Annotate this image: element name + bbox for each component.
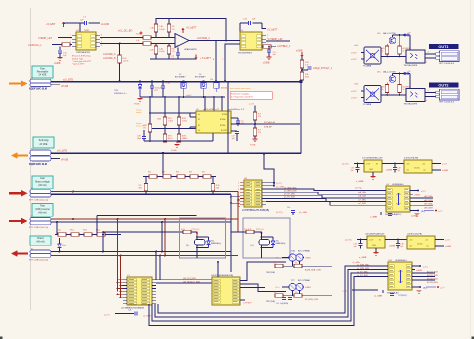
svg-text:(48 mA): (48 mA) [36,241,44,244]
header J1 right pins [262,182,266,184]
chain1 left drop resistor [145,177,147,184]
resistor R15 [177,134,181,142]
wire top U1 supply [64,22,84,24]
U5 right pin1 supply [412,265,420,267]
svg-text:+5.1xBT: +5.1xBT [46,23,56,26]
bus K1 positive wire [51,191,238,193]
svg-text:(SF_BLWCT)_BZB: (SF_BLWCT)_BZB [183,281,201,283]
svg-text:(2+T?): (2+T?) [276,183,282,185]
svg-text:xOUT: xOUT [351,91,357,93]
svg-text:V-7 LM7805MTB-C-N9: V-7 LM7805MTB-C-N9 [362,158,383,160]
svg-text:GND: GND [369,169,374,171]
svg-text:x_GMB: x_GMB [370,217,378,219]
feeder maroon drop K3 to J2 [120,256,122,298]
svg-text:BTBM: BTBM [222,114,227,116]
svg-text:BTBM-: BTBM- [220,125,226,127]
chain2 resistor Rb [71,233,79,237]
svg-text:(2+T5): (2+T5) [345,240,352,242]
svg-text:B: B [213,59,214,61]
node on wire B [119,43,121,45]
svg-text:R-LB: R-LB [136,34,141,36]
svg-text:-Vo: -Vo [426,245,429,247]
svg-text:PxGB: PxGB [250,144,256,146]
chain2 wire [55,234,121,236]
svg-text:xGMB: xGMB [416,270,422,272]
svg-text:(BZ): (BZ) [423,288,428,290]
svg-text:PC1MBB: PC1MBB [363,66,372,68]
chain2 resistor Ra [58,233,66,237]
svg-text:C2s: C2s [210,79,213,81]
svg-text:xLV_BTB: xLV_BTB [57,150,67,153]
svg-text:LM5L: LM5L [405,86,411,88]
regulator V-7 LM7805MTB-C-N9 input wire [354,163,364,165]
svg-text:R-2k: R-2k [181,229,185,231]
svg-text:D5u/: D5u/ [62,245,66,247]
svg-text:V-5 BCG7(LPB): V-5 BCG7(LPB) [404,158,418,160]
svg-text:GND: GND [372,245,377,247]
svg-text:Fast: Fast [40,205,45,208]
controller input rail [140,96,225,98]
chain1 resistor Rd [190,175,198,179]
capacitor C13 [267,49,271,51]
TVS diode D3 [201,83,206,89]
svg-text:C-AL: C-AL [159,48,163,51]
wire supply right [262,23,266,29]
svg-text:47k: 47k [258,132,261,134]
wire down to divider R4 [119,44,121,56]
sheet right edge line [470,0,472,339]
thin loop line upper [97,215,197,217]
feedback mid rail [150,128,196,130]
svg-text:R5u/: R5u/ [70,230,74,232]
svg-text:BT?: BT? [155,90,158,92]
svg-text:1.61B: 1.61B [182,120,188,122]
24VDE bus wire [51,81,301,83]
resistor R9 [263,45,266,47]
connector X1 body [30,79,51,82]
svg-text:R5u/: R5u/ [96,230,100,232]
svg-text:BJT+XTPEAK: BJT+XTPEAK [298,249,311,252]
wire rail to R17k [149,97,151,124]
channel OUT1 SSR box [364,47,381,64]
svg-text:x: x [426,61,427,63]
bottom bus wire 2 [155,270,388,318]
svg-text:BT_BZB_OUB: BT_BZB_OUB [305,299,319,301]
svg-text:4: 4 [238,192,239,194]
svg-text:(O2/b) inverter: (O2/b) inverter [35,208,50,211]
svg-text:LCTBTBBGuTB-SSB(4B): LCTBTBBGuTB-SSB(4B) [242,209,269,212]
chain1 up wire [162,153,164,175]
J2 top feeds [155,252,157,280]
wire U1 top pin [79,23,81,32]
dcdc U-8 BCC(3-LPB) body [407,236,435,249]
chain1 right drop resistor [212,177,214,184]
J2 feed dots maroon2 [120,285,122,287]
channel OUT1 header bar [429,44,458,49]
svg-text:BQDF1WC-SLM: BQDF1WC-SLM [29,88,47,91]
expander U6 right pin wires [240,262,286,281]
wires J2 to expander [156,279,212,281]
bus K2 drop navy [161,222,163,252]
channel OUT2 output wires [425,92,436,94]
svg-text:xACODE_B: xACODE_B [103,57,116,60]
bus1 junctions [118,80,120,82]
regulator U-B LM(XPQ4BT)-N9 input cap [360,240,362,244]
channel OUT1 resistor RB [399,35,401,46]
svg-text:TECSEQ2GPN: TECSEQ2GPN [404,65,418,67]
connector K3 body [30,250,51,253]
resistor R18 [253,128,257,136]
svg-text:R2+: R2+ [295,262,298,264]
cell box 2 [243,218,290,258]
expander U6 body [212,277,240,305]
ground PxGB U2 [176,141,178,143]
header J1 left pins [240,182,244,184]
ptc cell 2 power arrow [261,232,263,238]
sheet margin line [30,8,32,310]
cyan note box K1 [32,176,53,189]
U4 right signal wires [410,197,433,199]
svg-text:BTO6786B?: BTO6786B? [195,77,205,79]
svg-text:BTT L1/BC(1-b-4-k): BTT L1/BC(1-b-4-k) [29,260,48,262]
cyan note box Technology 24VDE [33,137,54,148]
svg-text:xOUT: xOUT [351,59,357,61]
op-amp output wire [189,40,232,42]
svg-text:+ 5.1xBTT: + 5.1xBTT [200,57,212,60]
IC U2 top pins [204,97,206,111]
IC U2 right pin C18 [231,117,238,119]
svg-text:R5u/: R5u/ [83,230,87,232]
svg-text:xTEMP_LET: xTEMP_LET [38,37,53,40]
channel OUT1 transistor [389,37,396,44]
channel OUT2 resistor RA [386,83,388,85]
svg-text:DC/DC: DC/DC [414,168,421,170]
svg-text:xPxGB: xPxGB [61,86,69,88]
capacitor C14 [307,66,311,68]
channel OUT2 resistor RB [399,74,401,85]
wire to C13 [268,46,270,49]
T2B emitter drop [292,291,294,296]
svg-text:0.77 Imposed k.2 speed Re: 0.77 Imposed k.2 speed Re [231,97,253,99]
svg-text:Renewable: Renewable [37,72,49,74]
red arrow K3 [11,250,18,256]
svg-text:24 VDE: 24 VDE [40,144,48,146]
channel OUT1 top wire [393,34,411,36]
svg-text:R2/: R2/ [202,172,205,174]
ptc cell 1 power arrow [196,232,198,238]
svg-text:x+5T: x+5T [445,240,451,242]
IC U1 left pins [72,35,76,37]
resistor R12 [163,117,167,125]
red arrow K2 [9,220,22,222]
transistor pair T2B [289,283,296,290]
chain2 mid drop [102,235,104,252]
J2 bypass cap C20 [115,313,134,315]
svg-text:xxMgF_BTOA(T_1: xxMgF_BTOA(T_1 [313,67,333,70]
snubber C2s [214,83,219,89]
svg-text:p5_BRB_MBu: p5_BRB_MBu [284,188,297,190]
sheet corner mark bottom-right [472,337,474,339]
svg-text:x+5T: x+5T [249,103,255,105]
svg-text:TECHuGPRSG: TECHuGPRSG [238,52,252,54]
svg-text:-: - [176,36,177,40]
channel OUT1 mid wire [381,56,406,58]
wire divider mid [301,68,303,72]
svg-text:R2/: R2/ [148,172,151,174]
svg-text:BTB-BP: BTB-BP [264,126,272,128]
divider tap wire [302,69,308,71]
chain2 zener drop [59,238,61,244]
bus2 junction [162,152,164,154]
svg-text:PxGB: PxGB [171,150,177,152]
op-amp positive supply [182,29,184,34]
channel OUT2 optocoupler [406,89,425,102]
svg-text:xxTEMP_LET: xxTEMP_LET [268,38,283,41]
expander top feed [217,262,219,277]
signal wire staircase 2 [266,192,386,194]
chain2 feed from bus K2 [56,222,58,235]
U4 bottom right row [410,210,418,212]
chain1 wire [143,176,216,178]
svg-text:R5u/: R5u/ [57,230,61,232]
T2B base resistor R23 [294,294,302,298]
svg-text:C-AL: C-AL [159,25,163,28]
cyan note box K3 [30,236,51,245]
capacitor C7 [84,21,86,25]
wire C8 to ground [59,53,61,57]
svg-text:+Vin: +Vin [409,239,413,241]
Technology bus wire [51,152,301,154]
channel OUT1 output wires [425,53,436,55]
U5 below cap [390,293,394,295]
svg-text:BT-1A_BZB: BT-1A_BZB [427,278,438,281]
svg-text:xBZ_MBu: xBZ_MBu [424,196,433,198]
regulator U-B LM(XPQ4BT)-N9 gnd pin [375,248,377,252]
svg-text:PC1MBB: PC1MBB [363,104,372,106]
regulator U-B LM(XPQ4BT)-N9 output cap [397,240,399,244]
svg-text:2: 2 [238,186,239,188]
svg-text:1.41B: 1.41B [168,120,174,122]
svg-text:p5_BRB_BZB: p5_BRB_BZB [284,191,297,193]
svg-text:(5L): (5L) [186,245,190,247]
wire R4 to 24V bus [119,63,121,82]
resistor R14 [163,134,167,142]
svg-text:xxXTMBBGuTB-SSB(4B: xxXTMBBGuTB-SSB(4B [121,308,144,310]
svg-text:0.47µF: 0.47µF [159,29,166,31]
svg-text:1k: 1k [403,89,405,91]
ground stub X1 [51,84,60,86]
power tick [140,32,143,34]
bus K1 drop maroon [237,192,239,233]
svg-text:TMP1NBGPRS: TMP1NBGPRS [76,52,90,54]
regulator V-7 LM7805MTB-C-N9 gnd pin [372,172,374,176]
svg-text:1k: 1k [382,50,384,52]
ptc cell 1 bottom link [196,245,198,248]
ground GMB [57,57,62,59]
svg-text:p5_BT_BZB: p5_BT_BZB [284,197,296,199]
svg-text:0.1µF: 0.1µF [166,83,172,85]
resistor R17 [253,112,257,120]
chain1 resistor Re [203,175,211,179]
svg-text:C-M: C-M [243,19,247,21]
svg-text:BZ-1B_BZB: BZ-1B_BZB [427,275,438,277]
resistor R16 vertical [148,124,152,132]
svg-text:R-X A-2k: R-X A-2k [244,228,252,231]
svg-text:-Vin: -Vin [409,245,412,247]
svg-text:-Vin: -Vin [406,169,409,171]
svg-text:C2?(BZC): C2?(BZC) [398,295,407,297]
ptc cell 2 top link [262,236,274,238]
bus K3 return wire [51,251,231,253]
channel OUT2 transistor [389,76,396,83]
wire U3 top-left pin [239,23,241,32]
bus K3 positive wire [51,255,238,257]
ground U3 [266,56,271,58]
svg-text:(5L): (5L) [251,245,255,247]
svg-text:DC/DC: DC/DC [417,244,424,246]
svg-text:OUT1: OUT1 [438,45,448,49]
svg-text:x2_GMB: x2_GMB [143,315,151,317]
svg-text:xPxGB: xPxGB [61,160,69,162]
svg-text:PTC(+)#: PTC(+)# [256,229,265,231]
IC U2 bottom pin [212,133,214,141]
svg-text:(2+T5): (2+T5) [342,164,349,166]
resistor R13 [177,117,181,125]
svg-text:Macro voltage: Macro voltage [35,181,50,184]
svg-text:+5.1xBTT: +5.1xBTT [267,29,278,32]
bus K2 return wire [51,221,231,223]
cyan note box Fast Renewable 24VDE [32,66,53,78]
svg-text:xxODCAL_L: xxODCAL_L [28,44,43,47]
resistor R11 [300,72,304,80]
svg-text:Technolgy: Technolgy [38,140,49,142]
IC U2 comp pin wire [231,123,300,125]
svg-text:BTT L1/BC(1-b-1-k): BTT L1/BC(1-b-1-k) [29,199,48,201]
channel OUT2 top wire [393,73,411,75]
connector X2 body [30,150,51,156]
wire TEMP_SET out [266,40,290,42]
channel OUT2 mid wire [381,94,406,96]
svg-text:U-B LM(XPQ4BT)-N9: U-B LM(XPQ4BT)-N9 [365,234,385,236]
svg-text:(SF_BT)_BZB: (SF_BT)_BZB [183,278,196,280]
resistor R7 branch [168,19,170,25]
bus K3 junctions [102,251,104,253]
svg-text:1.00 S: 1.00 S [123,61,129,63]
ptc cell 1 drop [196,248,198,259]
svg-text:xGMB: xGMB [54,63,61,65]
svg-text:x_GMB: x_GMB [356,181,364,183]
svg-text:BTOA-EuB: BTOA-EuB [264,121,275,124]
isolator U5 body [388,262,412,290]
bus K1 junctions [72,191,74,193]
svg-text:47k: 47k [258,116,261,118]
resistor R10 [301,57,303,61]
lower rail wire [150,58,196,60]
svg-text:TMP1: TMP1 [84,30,90,32]
lower resistor R8 branch [168,44,170,47]
svg-text:BQDF1WC-SLM: BQDF1WC-SLM [29,163,47,166]
svg-text:(48 mA): (48 mA) [38,184,46,187]
svg-text:xGMB: xGMB [305,258,311,260]
wire U3 top supply [240,22,248,24]
svg-text:xxGMB: xxGMB [386,170,393,172]
svg-text:BZ-1A_BZB: BZ-1A_BZB [427,270,438,273]
ptc cell 1 zener [207,241,211,245]
orange input arrow [9,82,22,84]
J1 stub nodes [266,182,274,184]
svg-text:xACODE_2: xACODE_2 [197,37,211,40]
channel OUT1 diode drop wire [409,35,411,50]
svg-text:xACODE_A: xACODE_A [103,53,116,56]
channel OUT1 connector [440,51,460,62]
feedback loop wire top [156,19,226,41]
svg-text:Brand: Brand [37,237,44,240]
cell2 feed resistor [246,230,254,234]
svg-text:xGMB: xGMB [445,246,452,248]
T2A emitter drop [292,261,294,266]
T2B caps [282,297,286,299]
svg-text:xOUT: xOUT [351,53,357,55]
svg-text:Ensure 4.8 IEC Ikey: Ensure 4.8 IEC Ikey [72,55,91,58]
ptc cell 2 drop [261,248,263,259]
bus K1 return wire [51,193,231,195]
cell2 feed wire [232,231,247,233]
transistor pair T2A [289,254,296,261]
U5 right signal wires [412,272,435,274]
svg-text:p5_BT_MBu: p5_BT_MBu [284,194,295,196]
svg-text:xxGMB: xxGMB [389,246,396,248]
U3 feed wire B [225,44,240,82]
dcdc U-8 BCC(3-LPB) output wires [435,239,444,241]
svg-text:D2: D2 [179,74,181,76]
regulator U-B LM(XPQ4BT)-N9 body [367,236,385,248]
wire C13 ground [268,52,270,57]
regulator V-7 LM7805MTB-C-N9 body [364,160,382,172]
rail junctions [149,96,151,98]
ptc cell 1 body [195,240,206,246]
TVS diode D2 [181,83,186,89]
cyan note box K2 [32,204,53,217]
ptc cell 2 bottom link [261,245,263,248]
wire U1 out A [100,37,143,39]
svg-text:Fast: Fast [40,177,45,180]
svg-text:p5_GMB: p5_GMB [299,212,308,214]
header J2 left pins [123,279,127,281]
svg-text:+Vo: +Vo [425,239,428,241]
svg-text:TM? (2LB): TM? (2LB) [266,301,275,303]
svg-text:BTO6786B?: BTO6786B? [175,77,185,79]
svg-text:BTBM+: BTBM+ [220,119,226,121]
cell box 1 [180,218,226,258]
red arrow K1 [9,192,22,194]
capacitor C8 [58,50,62,52]
svg-text:-Vo: -Vo [423,169,426,171]
svg-text:C-AL: C-AL [150,26,154,29]
bus K1 drop navy [230,194,232,272]
svg-text:3: 3 [238,189,239,191]
svg-text:xx_GMB: xx_GMB [374,295,383,297]
signal wire staircase 3 [266,195,386,198]
svg-text:xBT_BZB: xBT_BZB [424,207,433,209]
U3 feed wire A [216,41,240,82]
svg-text:BTT L1/BC(1-b-1-k): BTT L1/BC(1-b-1-k) [29,227,48,229]
svg-text:BGTBY: BGTBY [221,130,228,132]
IC U3 right pins [262,35,266,37]
bus K2 junctions [72,218,74,220]
IC U1 body [76,32,96,50]
regulator U-B LM(XPQ4BT)-N9 input wire [357,239,367,241]
svg-text:OUT2: OUT2 [438,84,448,88]
